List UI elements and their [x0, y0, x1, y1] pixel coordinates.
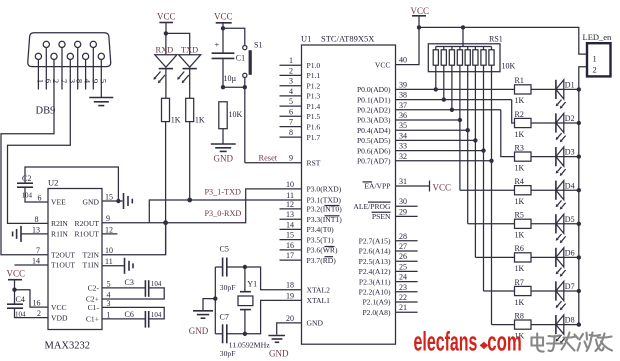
- svg-text:6: 6: [289, 107, 293, 116]
- svg-text:12: 12: [286, 200, 294, 209]
- svg-text:C2-: C2-: [88, 284, 100, 293]
- IC U1 STC/AT89X5X box: [302, 45, 396, 344]
- svg-text:31: 31: [399, 177, 407, 186]
- svg-text:25: 25: [399, 262, 407, 271]
- svg-text:elecfans: elecfans: [414, 326, 478, 356]
- svg-text:1K: 1K: [515, 197, 525, 206]
- capacitor C6: [125, 310, 162, 327]
- resistor R8 1K: [515, 311, 532, 340]
- svg-text:P2.5(A13): P2.5(A13): [359, 257, 391, 266]
- svg-text:40: 40: [399, 56, 407, 65]
- wire pin31 EA to VCC tick: [396, 185, 430, 187]
- svg-text:D4: D4: [565, 181, 575, 190]
- crystal Y1: [229, 267, 271, 349]
- wire VCC node to pin16: [15, 290, 49, 307]
- wire feed to R4: [460, 189, 515, 191]
- svg-text:VCC: VCC: [375, 60, 391, 69]
- svg-text:Y1: Y1: [247, 280, 257, 289]
- wire C3 to C2+ pin4: [102, 288, 164, 299]
- svg-text:D3: D3: [565, 148, 575, 157]
- svg-text:5: 5: [98, 79, 108, 83]
- svg-text:VCC: VCC: [7, 269, 26, 279]
- resistor R1 1K: [515, 76, 532, 105]
- watermark chinese text: [532, 333, 613, 352]
- svg-text:37: 37: [399, 101, 407, 110]
- diode D2 LED: [556, 113, 575, 142]
- svg-text:10µ: 10µ: [224, 74, 237, 83]
- resistor 10K (reset pulldown): [219, 102, 227, 129]
- svg-text:10: 10: [105, 246, 113, 255]
- svg-text:27: 27: [399, 242, 407, 251]
- op-amp U2 MAX3232 box: [48, 189, 102, 330]
- svg-text:32: 32: [399, 152, 407, 161]
- svg-text:P0.4(AD4): P0.4(AD4): [357, 126, 391, 135]
- net P3_0-RXD wire (R2OUT to U1 P3.0): [102, 189, 302, 223]
- wire T2IN from node: [102, 223, 166, 255]
- svg-text:C1+: C1+: [86, 315, 99, 324]
- svg-text:GND: GND: [83, 198, 100, 207]
- wire RS1 element 1 drop: [435, 65, 437, 89]
- wire P0.7 line: [396, 160, 492, 162]
- svg-text:2: 2: [37, 309, 41, 318]
- svg-text:35: 35: [399, 121, 407, 130]
- svg-text:5: 5: [289, 97, 293, 106]
- node rail D1: [577, 87, 581, 91]
- wire RXD chain down to node: [165, 122, 167, 255]
- resistor 1K (TXD chain): [186, 98, 194, 121]
- svg-text:11: 11: [286, 191, 294, 200]
- node VCC top: [417, 25, 421, 29]
- svg-text:P1.4: P1.4: [307, 102, 321, 111]
- overlines INT0 INT1 WR RD: [325, 205, 340, 207]
- diode D4 LED: [556, 181, 575, 210]
- wire feed to R7: [484, 290, 515, 292]
- svg-text:1: 1: [593, 53, 597, 63]
- resistor R6 1K: [515, 244, 532, 273]
- svg-text:33: 33: [399, 142, 407, 151]
- svg-text:GND: GND: [307, 319, 324, 328]
- svg-text:1K: 1K: [515, 231, 525, 240]
- U1 left pin names: [307, 61, 343, 328]
- node P0 pullup junction: [466, 128, 470, 132]
- svg-text:R2IN: R2IN: [51, 219, 68, 228]
- svg-text:38: 38: [399, 91, 407, 100]
- U2 pin numbers: [32, 193, 113, 320]
- wire pin40 to VCC: [396, 16, 420, 65]
- svg-text:39: 39: [399, 80, 407, 89]
- svg-text:1: 1: [107, 310, 111, 319]
- svg-text:P1.6: P1.6: [307, 122, 321, 131]
- svg-text:LED_en: LED_en: [583, 32, 613, 42]
- svg-text:R1IN: R1IN: [51, 230, 68, 239]
- ground (rotated, right of T1IN pin11): [102, 265, 125, 267]
- DB9 pin circles bottom row (1,2,3,4,5): [35, 53, 41, 59]
- svg-text:P0.6(AD6): P0.6(AD6): [357, 146, 391, 155]
- wire T1OUT dangling: [15, 264, 49, 266]
- node rail D8: [577, 322, 581, 326]
- svg-text:13: 13: [286, 210, 294, 219]
- wire P0.4 line: [396, 129, 468, 131]
- svg-text:1K: 1K: [515, 264, 525, 273]
- ground (U1 pin20): [268, 335, 285, 337]
- U1 left pin numbers: [286, 56, 294, 323]
- svg-text:5: 5: [107, 279, 111, 288]
- svg-text:T1IN: T1IN: [83, 261, 100, 270]
- svg-text:14: 14: [286, 220, 294, 229]
- resistor RS1 element 4: [459, 47, 461, 50]
- wire S1 bottom to RST: [244, 78, 246, 163]
- wire feed to R8: [492, 324, 515, 326]
- node VCC leds: [164, 31, 168, 35]
- svg-text:PSEN: PSEN: [372, 212, 391, 221]
- resistor R2 1K: [515, 110, 532, 139]
- svg-text:GND: GND: [189, 326, 209, 336]
- node C1 bottom: [221, 85, 225, 89]
- svg-text:1K: 1K: [171, 115, 181, 124]
- svg-text:9: 9: [106, 214, 110, 223]
- svg-text:P1.1: P1.1: [307, 71, 321, 80]
- svg-text:D1: D1: [565, 81, 575, 90]
- svg-text:MAX3232: MAX3232: [45, 341, 91, 352]
- DB9 pin 4 stub: [85, 60, 87, 90]
- wire feed to R5: [468, 223, 515, 225]
- svg-text:GND: GND: [214, 154, 234, 164]
- svg-text:P3.0(RXD): P3.0(RXD): [307, 185, 342, 194]
- svg-text:VCC: VCC: [411, 6, 430, 16]
- svg-text:P0.5(AD5): P0.5(AD5): [357, 136, 391, 145]
- svg-text:P3.4(T0): P3.4(T0): [307, 225, 335, 234]
- wire node to S1 top: [223, 28, 245, 45]
- svg-text:D6: D6: [565, 249, 575, 258]
- svg-text:20: 20: [286, 314, 294, 323]
- wire RS1 element 3 drop: [451, 65, 453, 110]
- svg-text:P0.1(AD1): P0.1(AD1): [357, 95, 391, 104]
- svg-text:11: 11: [105, 257, 113, 266]
- svg-text:R8: R8: [515, 311, 524, 320]
- wire R2 to rail: [531, 122, 579, 124]
- wire VCC top rail to LED_en: [419, 27, 587, 54]
- svg-text:4: 4: [289, 87, 293, 96]
- resistor network RS1 box: [428, 44, 500, 72]
- svg-text:P0.3(AD3): P0.3(AD3): [357, 116, 391, 125]
- svg-text:10K: 10K: [229, 110, 243, 119]
- wire 10K to ground: [222, 129, 224, 144]
- svg-text:+: +: [215, 40, 220, 50]
- capacitor C5 30pF: [220, 245, 236, 292]
- DB9 pin 6 stub: [45, 48, 47, 90]
- wire node to S1 riser: [223, 86, 245, 88]
- node rail D4: [577, 188, 581, 192]
- svg-text:P2.0(A8): P2.0(A8): [362, 308, 391, 317]
- wire RS1 element 2 drop: [443, 65, 445, 99]
- svg-text:3: 3: [107, 299, 111, 308]
- svg-text:7: 7: [36, 246, 40, 255]
- svg-text:C7: C7: [220, 313, 229, 322]
- svg-text:VCC: VCC: [51, 303, 67, 312]
- wire RS1 element 5 drop: [467, 65, 469, 224]
- wire C6 to C1- pin3: [102, 307, 164, 319]
- wire P0.5 line: [396, 139, 476, 141]
- svg-text:com: com: [487, 326, 521, 356]
- wire left rail (C5/C7): [214, 267, 216, 334]
- svg-text:P3_0-RXD: P3_0-RXD: [205, 209, 242, 218]
- svg-text:ALE/PROG: ALE/PROG: [353, 202, 391, 211]
- RS1 common rail: [436, 46, 492, 48]
- wire pin20 GND: [277, 323, 302, 335]
- node XTAL1/Y1 bottom: [243, 332, 247, 336]
- svg-text:VCC: VCC: [433, 182, 452, 192]
- wire DB9 pin3 to R2IN: [8, 60, 71, 224]
- svg-text:11.0592MHz: 11.0592MHz: [229, 340, 271, 349]
- svg-text:9: 9: [289, 154, 293, 163]
- node S1 riser: [243, 85, 247, 89]
- svg-text:15: 15: [286, 231, 294, 240]
- wire P0.3 line: [396, 119, 460, 121]
- wire feed to R6: [475, 256, 514, 258]
- node P0 pullup junction: [481, 148, 485, 152]
- wire C1 bottom to node: [222, 58, 224, 87]
- diode D5 LED: [556, 214, 575, 243]
- node rail/gnd: [213, 296, 217, 300]
- wire R1 to rail: [531, 88, 579, 90]
- resistor RS1 element 3: [451, 47, 453, 50]
- svg-text:P2.3(A11): P2.3(A11): [359, 277, 391, 286]
- svg-text:R5: R5: [515, 211, 524, 220]
- svg-text:R3: R3: [515, 143, 524, 152]
- svg-text:C2: C2: [22, 174, 31, 183]
- svg-text:8: 8: [289, 128, 293, 137]
- svg-text:T2OUT: T2OUT: [51, 250, 75, 259]
- ground (rotated, right of pin15): [123, 193, 125, 209]
- wire LED rail: [579, 67, 587, 325]
- wire VCC down to node: [165, 23, 167, 34]
- svg-text:DB9: DB9: [36, 106, 56, 117]
- watermark elecfans.com: [414, 326, 522, 356]
- wire node to RS1 rail: [462, 27, 464, 46]
- svg-text:D7: D7: [565, 282, 575, 291]
- U1 left pin stubs 1-8: [280, 64, 302, 66]
- svg-text:VEE: VEE: [51, 198, 66, 207]
- svg-text:P1.7: P1.7: [307, 133, 321, 142]
- net P3_1-TXD wire (T2IN riser to U1 P3.1): [149, 200, 301, 223]
- svg-text:29: 29: [399, 207, 407, 216]
- svg-text:D5: D5: [565, 215, 575, 224]
- DB9 pin 8 stub: [77, 48, 79, 90]
- node XTAL2/Y1 top: [243, 265, 247, 269]
- svg-text:S1: S1: [254, 40, 262, 49]
- svg-text:18: 18: [286, 281, 294, 290]
- svg-text:C3: C3: [125, 278, 134, 287]
- svg-text:R1OUT: R1OUT: [75, 230, 100, 239]
- svg-text:P3.5(T1): P3.5(T1): [307, 235, 335, 244]
- U1 right stubs 30,29,28-21: [396, 205, 418, 207]
- svg-text:TXD: TXD: [181, 45, 198, 54]
- wire C4 bottom to VDD pin2: [15, 308, 49, 317]
- wire C7 row / XTAL1: [215, 333, 222, 335]
- node pin15: [116, 199, 120, 203]
- svg-text:21: 21: [399, 303, 407, 312]
- svg-text:104: 104: [151, 311, 162, 319]
- resistor R3 1K: [515, 143, 532, 172]
- DB9 pin 9 stub: [92, 48, 94, 90]
- svg-text:STC/AT89X5X: STC/AT89X5X: [321, 34, 374, 44]
- wire C1+ pin1 to C6: [102, 318, 145, 320]
- svg-text:1K: 1K: [515, 298, 525, 307]
- svg-text:R6: R6: [515, 244, 524, 253]
- diode D3 LED: [556, 147, 575, 176]
- node rail D5: [577, 222, 581, 226]
- svg-text:34: 34: [399, 131, 407, 140]
- svg-text:P3_1-TXD: P3_1-TXD: [205, 188, 241, 197]
- overlines EA PROG PSEN: [363, 181, 373, 183]
- svg-text:104: 104: [22, 192, 33, 200]
- svg-text:26: 26: [399, 252, 407, 261]
- svg-text:14: 14: [32, 257, 40, 266]
- ground (crystal left): [193, 310, 213, 312]
- DB9 pin numbers (rotated): [35, 79, 108, 84]
- diode D6 LED: [556, 248, 575, 277]
- svg-text:C6: C6: [125, 310, 134, 319]
- LED RXD (D? vertical, pointing down): [153, 45, 177, 83]
- svg-text:8: 8: [35, 215, 39, 224]
- svg-text:16: 16: [286, 241, 294, 250]
- svg-text:P1.3: P1.3: [307, 92, 321, 101]
- svg-text:6: 6: [38, 194, 42, 203]
- wire C2 top rail to pin15: [25, 167, 118, 201]
- node VCC/C1/S1: [221, 26, 225, 30]
- capacitor C4: [7, 295, 26, 318]
- svg-text:12: 12: [105, 225, 113, 234]
- node P0 pullup junction: [450, 108, 454, 112]
- svg-text:36: 36: [399, 111, 407, 120]
- wire DB9 pin2 to T2OUT: [1, 60, 54, 255]
- wire RS1 element 6 drop: [474, 65, 476, 257]
- svg-text:U2: U2: [48, 178, 58, 188]
- svg-text:P0.0(AD0): P0.0(AD0): [357, 85, 391, 94]
- svg-text:30: 30: [399, 197, 407, 206]
- diode D8 LED: [556, 315, 575, 344]
- svg-text:1K: 1K: [515, 130, 525, 139]
- node TXD junction: [187, 198, 192, 203]
- wire RXD led to R: [165, 69, 167, 99]
- resistor RS1 element 5: [467, 47, 469, 50]
- resistor RS1 element 6: [474, 47, 476, 50]
- svg-text:C4: C4: [16, 295, 25, 304]
- U1 right pin names: [353, 60, 391, 317]
- DB9 pin 1 stub: [37, 60, 39, 90]
- svg-text:D8: D8: [565, 316, 575, 325]
- node RXD junction: [163, 220, 168, 225]
- svg-text:P3.1(TXD): P3.1(TXD): [307, 196, 342, 205]
- wire TXD chain down to P3_1 line: [189, 122, 191, 200]
- wire C2 bottom to VEE pin 6: [25, 187, 48, 202]
- wire R1OUT pin12 stub: [102, 233, 117, 235]
- wire TXD led to R: [189, 69, 191, 99]
- node rail D3: [577, 154, 581, 158]
- svg-text:28: 28: [399, 232, 407, 241]
- svg-text:30pF: 30pF: [220, 349, 236, 358]
- svg-text:P0.7(AD7): P0.7(AD7): [357, 157, 391, 166]
- resistor R4 1K: [515, 177, 532, 206]
- connector J? DB9 body: [28, 33, 111, 67]
- wire RS1 element 4 drop: [459, 65, 461, 190]
- svg-text:VDD: VDD: [51, 313, 68, 322]
- capacitor C3: [125, 278, 162, 297]
- ground (below 10K): [211, 143, 236, 145]
- svg-text:P1.5: P1.5: [307, 112, 321, 121]
- svg-text:104: 104: [151, 280, 162, 288]
- resistor RS1 element 1: [435, 47, 437, 50]
- svg-text:EA/VPP: EA/VPP: [364, 182, 390, 191]
- wire P0.2 line: [396, 109, 501, 111]
- DB9 pin circles top row (6,7,8,9): [43, 41, 49, 47]
- svg-text:17: 17: [286, 251, 294, 260]
- wire pin15 GND stub: [102, 200, 123, 202]
- svg-text:2: 2: [289, 66, 293, 75]
- wire C5 row / XTAL2: [215, 266, 222, 268]
- svg-text:R2OUT: R2OUT: [75, 219, 100, 228]
- node RS1 drop: [461, 25, 465, 29]
- svg-text:16: 16: [33, 299, 41, 308]
- svg-text:1K: 1K: [515, 163, 525, 172]
- wire RS1 element 7 drop: [483, 65, 485, 291]
- wire P0.0 line: [396, 88, 515, 90]
- node P0 pullup junction: [473, 138, 477, 142]
- svg-text:13: 13: [32, 225, 40, 234]
- svg-text:D2: D2: [565, 114, 575, 123]
- svg-text:19: 19: [286, 291, 294, 300]
- node VCC/C4: [12, 288, 16, 292]
- wire R4 to rail: [531, 189, 579, 191]
- node P0 pullup junction: [442, 97, 446, 101]
- svg-text:15: 15: [105, 193, 113, 202]
- svg-text:10: 10: [286, 180, 294, 189]
- svg-text:P1.2: P1.2: [307, 81, 321, 90]
- svg-text:23: 23: [399, 283, 407, 292]
- node P0 pullup junction: [458, 118, 462, 122]
- ground (DB9): [89, 97, 113, 99]
- svg-text:VCC: VCC: [214, 12, 233, 22]
- wire R5 to rail: [531, 223, 579, 225]
- resistor R7 1K: [515, 278, 532, 307]
- wire RS1 element 8 drop: [491, 65, 493, 324]
- svg-text:2: 2: [593, 64, 597, 74]
- resistor R5 1K: [515, 211, 532, 240]
- wire P0.1 turn to R2: [512, 100, 515, 123]
- svg-text:Reset: Reset: [259, 154, 278, 163]
- wire R6 to rail: [531, 256, 579, 258]
- node rail D6: [577, 255, 581, 259]
- resistor RS1 element 8: [491, 47, 493, 50]
- wire R3 to rail: [531, 156, 579, 158]
- switch S1: [243, 40, 263, 77]
- svg-text:R7: R7: [515, 278, 524, 287]
- wire RST to U1 pin9: [245, 162, 302, 164]
- svg-text:P1.0: P1.0: [307, 61, 321, 70]
- wire P0.2 turn to R3: [501, 110, 515, 157]
- capacitor C2: [17, 174, 33, 200]
- svg-text:R4: R4: [515, 177, 524, 186]
- resistor RS1 element 7: [483, 47, 485, 50]
- wire R7 to rail: [531, 290, 579, 292]
- wire VCC to C1: [222, 23, 224, 53]
- svg-text:10K: 10K: [502, 62, 516, 71]
- wire node to RXD led: [165, 33, 167, 54]
- svg-text:XTAL1: XTAL1: [307, 296, 331, 305]
- U1 right pin numbers: [399, 56, 407, 313]
- svg-text:1: 1: [289, 56, 293, 65]
- ground (rotated, left of R1IN pin13): [21, 233, 48, 235]
